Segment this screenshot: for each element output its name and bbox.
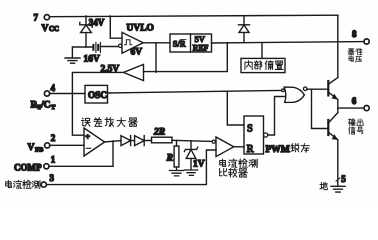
svg-text:4: 4 [51,83,56,93]
bias block lead [261,43,263,59]
buffer output wire to error amp [72,72,123,135]
pin 1 terminal COMP [44,164,49,169]
svg-text:2R: 2R [153,128,165,138]
svg-text:FB: FB [35,147,44,154]
pin 2 terminal [45,143,50,148]
ground G1 [65,58,80,63]
ground G2 [170,167,184,176]
latch output wire to OR gate [268,97,285,136]
svg-text:6: 6 [352,96,357,106]
transistor Q1 [327,81,329,95]
pin 6 wire and terminal [338,107,364,109]
svg-text:OSC: OSC [88,90,107,100]
svg-text:6V: 6V [131,48,143,58]
pin 1 wire to error amp output node [49,141,113,166]
buffer 2.5V U3 [123,64,143,80]
svg-text:2: 2 [51,133,56,143]
pin 4 terminal [44,91,49,96]
pin 4 wire [50,93,85,95]
wire REF to pin 8 [212,42,365,43]
diode D2 [238,16,249,43]
pin 5 tick and label [336,178,340,181]
svg-text:7: 7 [34,13,39,23]
resistor 2R [152,137,173,143]
svg-text:CC: CC [49,25,59,33]
node: UVLO out drop [155,43,157,72]
current sense comparator U5 [212,140,215,143]
label 基准电压 [348,49,354,55]
node zener/battery/ground [72,47,93,58]
node: S drop from clock line [227,91,244,125]
OR gate U7 [282,89,285,92]
label 电流检测 pin3 [6,181,12,188]
zener D1 34V [80,16,92,47]
svg-text:5: 5 [341,174,346,184]
top rail Vcc wire [50,15,338,17]
node drop to bias line [144,43,228,72]
svg-text:/C: /C [40,101,51,111]
svg-text:R: R [166,154,173,164]
node zener tap [190,141,192,149]
zener D5 1V [184,147,197,169]
transistor Q2 [327,120,329,135]
pin 8 terminal [364,39,369,44]
svg-text:1V: 1V [193,160,205,170]
label 地 [320,182,328,189]
OSC output long wire [108,90,282,93]
svg-text:8: 8 [352,29,357,39]
oscillator OSC [85,85,108,103]
svg-text:+: + [85,132,90,142]
label 输出信号 [348,119,355,126]
internal bias block 内部偏置 [241,58,285,72]
node: base drive split [312,89,328,128]
svg-text:PWM: PWM [266,145,290,155]
svg-text:16V: 16V [84,55,101,65]
svg-text:T: T [51,104,56,111]
pin 2 wire [50,144,84,146]
ground G3 [184,170,197,175]
ground G4 [331,186,345,192]
S/R 5VREF block U2 [170,34,212,52]
node R divider [176,140,178,146]
UVLO comparator U1 [110,16,122,38]
pin 3 terminal [41,182,46,187]
svg-text:S: S [247,124,253,135]
diode D4 [131,136,152,146]
error amp output wire [105,141,121,142]
svg-text:V: V [28,143,35,153]
OR output wire [307,88,327,90]
svg-text:V: V [42,24,49,34]
label 电流检测 / 比较器 [220,159,226,166]
pin 7 terminal [44,15,49,20]
PWM latch U6 [244,116,264,154]
svg-text:UVLO: UVLO [127,24,154,34]
svg-text:1: 1 [51,155,56,165]
comparator output to R input [234,146,244,148]
wire 2R to comparator [172,140,212,141]
pin 3 wire [47,150,216,185]
error amplifier U4 [84,128,105,156]
svg-text:COMP: COMP [14,162,42,172]
svg-text:3: 3 [50,173,55,183]
resistor R [174,146,179,167]
svg-text:34V: 34V [89,17,105,27]
battery 16V [93,45,98,50]
UVLO output wire [143,42,170,44]
error amp 误差放大器 label [82,118,90,126]
svg-text:REF: REF [193,43,209,53]
diode D3 [121,136,131,146]
svg-text:R: R [247,144,254,155]
svg-text:S/R: S/R [173,39,186,49]
